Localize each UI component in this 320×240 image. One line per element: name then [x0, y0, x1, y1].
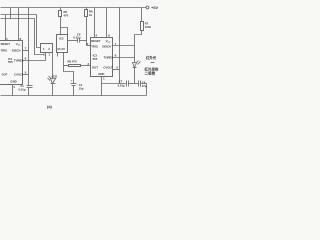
module A pin 2 wire to LED	[52, 53, 54, 79]
terminal +6V	[146, 6, 149, 9]
pin 2 stub	[87, 45, 91, 47]
svg-text:+6V: +6V	[151, 5, 159, 10]
wire pins 7/6/5 vertical	[28, 8, 30, 75]
svg-text:CVOLT: CVOLT	[14, 73, 23, 77]
wire IC2 to C4	[64, 53, 74, 84]
svg-text:470: 470	[64, 13, 69, 17]
module A box	[41, 44, 53, 53]
ground rail	[1, 95, 147, 97]
svg-text:555: 555	[93, 57, 98, 61]
pin 7 stub IC3	[113, 45, 135, 47]
+V supply rail	[1, 7, 147, 9]
bottom caps wire	[102, 83, 127, 85]
GND pin IC3	[101, 77, 103, 96]
svg-text:TRIG: TRIG	[91, 45, 98, 49]
svg-text:R8 470: R8 470	[68, 60, 77, 64]
capacitor C8	[138, 81, 140, 87]
svg-text:0.01μ: 0.01μ	[118, 83, 125, 87]
svg-text:OUT: OUT	[92, 66, 98, 70]
wire H3 net	[1, 19, 45, 55]
svg-text:IC2: IC2	[59, 37, 64, 41]
IC2 box	[57, 35, 68, 53]
pin 5 stub IC3 + label	[113, 69, 120, 71]
resistor R7	[141, 8, 143, 22]
svg-text:THRES: THRES	[14, 59, 24, 63]
svg-text:0.01μ: 0.01μ	[73, 35, 80, 39]
capacitor C4 electrolytic	[71, 83, 77, 85]
wire R5 to IC2 pins	[61, 28, 68, 35]
wire between caps	[129, 83, 139, 85]
svg-text:GND: GND	[10, 80, 16, 84]
wire Vcc pin8 IC1	[18, 8, 20, 41]
wire pin5 net to C7	[119, 8, 121, 84]
svg-text:XX XX: XX XX	[57, 47, 65, 51]
wire H2 reset net	[1, 15, 41, 48]
svg-text:555: 555	[8, 60, 13, 64]
svg-text:47μ: 47μ	[142, 84, 147, 88]
svg-text:LED: LED	[52, 74, 58, 78]
svg-text:+: +	[71, 79, 73, 83]
GND pin IC1	[12, 85, 14, 96]
svg-text:(a): (a)	[47, 104, 53, 109]
capacitor C6	[68, 40, 78, 42]
IC3 555 box	[91, 38, 113, 77]
pin 6 stub	[23, 60, 46, 62]
IR diode vertical wire	[134, 35, 136, 63]
svg-text:10μ: 10μ	[79, 87, 84, 91]
capacitor C1	[28, 75, 30, 86]
wire IC2 pin stub	[57, 53, 59, 57]
resistor R6	[86, 8, 88, 10]
svg-text:TRIG: TRIG	[1, 48, 8, 52]
svg-text:100k: 100k	[145, 25, 152, 29]
svg-text:红外光: 红外光	[146, 55, 157, 60]
pin 5 stub	[23, 74, 29, 76]
module A pin 1 wire	[45, 53, 47, 61]
IR emitting diode D2	[133, 63, 137, 68]
svg-text:RESET: RESET	[91, 39, 101, 43]
svg-text:二极管: 二极管	[145, 71, 156, 76]
svg-text:CVOLT: CVOLT	[103, 66, 113, 70]
op IC1 555 box	[0, 41, 23, 85]
wire C8 to ground rail	[141, 84, 147, 96]
top pin wires IC3	[94, 8, 96, 38]
svg-text:1k: 1k	[89, 13, 93, 17]
pin 6 stub IC3	[113, 57, 135, 59]
svg-text:DISCH: DISCH	[102, 45, 111, 49]
resistor R5	[60, 8, 62, 11]
svg-text:THRES: THRES	[104, 55, 114, 59]
svg-text:RESET: RESET	[1, 42, 11, 46]
svg-text:OUT: OUT	[2, 73, 8, 77]
svg-text:DISCH: DISCH	[12, 48, 21, 52]
pin 7 stub	[23, 50, 29, 52]
resistor R8	[64, 65, 69, 67]
svg-text:0.01μ: 0.01μ	[18, 88, 25, 92]
svg-text:GND: GND	[98, 72, 104, 76]
capacitor C7	[126, 81, 128, 87]
